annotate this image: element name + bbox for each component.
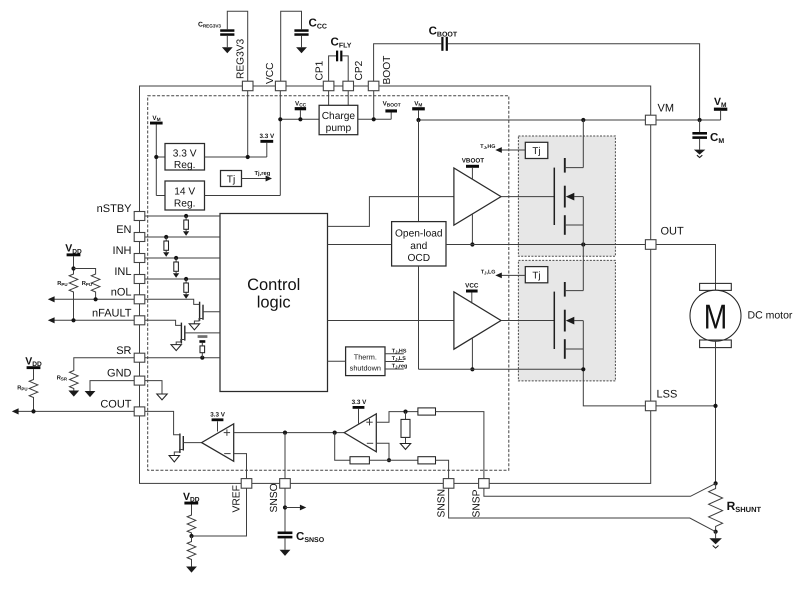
wire nFAULT external with arrow bbox=[48, 317, 134, 323]
svg-text:VDD: VDD bbox=[25, 355, 42, 368]
pull-down on INH bbox=[173, 256, 179, 278]
pin VREF bbox=[232, 479, 252, 513]
wire open-load block bottom to LSS rail bbox=[418, 266, 420, 369]
node SNSO branch bbox=[283, 431, 287, 435]
svg-text:VCC: VCC bbox=[265, 62, 276, 84]
ground below C_REG3V3 bbox=[222, 47, 233, 53]
wire GND external bbox=[90, 381, 134, 391]
svg-text:Open-load: Open-load bbox=[395, 228, 443, 239]
svg-text:CM: CM bbox=[710, 132, 724, 145]
svg-text:CP2: CP2 bbox=[354, 60, 365, 80]
wire U_C2 plus input network bbox=[376, 412, 418, 423]
wire U_C1 plus input line bbox=[234, 432, 345, 434]
wire Tj,reg stub bbox=[385, 364, 407, 370]
resistor (SNSN input) bbox=[389, 457, 436, 464]
wire SR external to R_SR bbox=[74, 358, 134, 369]
resistor R_PU (nOL) bbox=[82, 272, 100, 299]
gray low-side power MOSFET region bbox=[518, 260, 615, 381]
capacitor C_CC bbox=[294, 18, 327, 48]
pin SNSP bbox=[472, 479, 490, 518]
wire charge pump output to VBOOT bbox=[358, 118, 391, 120]
wire CP2 pin to charge pump bbox=[347, 91, 349, 106]
pin nFAULT bbox=[92, 308, 145, 325]
wire VM internal rail bbox=[419, 119, 646, 121]
thermal shutdown block bbox=[346, 347, 385, 376]
wire LS gate bbox=[501, 320, 554, 322]
svg-text:Charge: Charge bbox=[322, 111, 356, 122]
plus input mark U_C2 bbox=[366, 419, 372, 425]
resistor R_PU (COUT) bbox=[17, 378, 38, 411]
pin SR bbox=[116, 345, 145, 362]
svg-text:EN: EN bbox=[116, 224, 131, 236]
power symbol V_CC (charge pump input) bbox=[295, 100, 307, 119]
node VCC cap branch junction bbox=[298, 117, 302, 121]
power symbol V_DD (pull-ups) bbox=[65, 243, 82, 273]
node feedback branch bbox=[333, 431, 337, 435]
minus input mark U_C2 bbox=[367, 442, 373, 444]
svg-text:TJ,reg: TJ,reg bbox=[392, 364, 408, 370]
node 3.3V reg input junction bbox=[154, 155, 158, 159]
wire OUT rail (open-load to OUT pin) bbox=[446, 244, 645, 246]
power symbol 3.3 V (U_C2) bbox=[352, 399, 368, 423]
svg-text:RSR: RSR bbox=[57, 376, 68, 382]
svg-text:SNSO: SNSO bbox=[269, 483, 280, 512]
pin REG3V3 bbox=[236, 38, 253, 90]
wire VM external bbox=[656, 119, 721, 121]
wire Tj,LS stub bbox=[385, 356, 406, 362]
wire 3.3V reg output bbox=[205, 156, 267, 158]
ground below VREF divider bbox=[186, 567, 197, 573]
svg-text:nSTBY: nSTBY bbox=[97, 203, 133, 215]
wire VM vertical to 14V reg input bbox=[156, 195, 165, 197]
wire EN to control logic bbox=[145, 236, 220, 238]
pull-down on nSTBY bbox=[183, 214, 189, 236]
wire OUT external to motor bbox=[656, 245, 716, 282]
svg-text:Reg.: Reg. bbox=[174, 198, 196, 209]
gray high-side power MOSFET region bbox=[518, 136, 615, 256]
power symbol V_DD (VREF divider) bbox=[183, 491, 200, 514]
resistor (SNSP input) bbox=[418, 408, 436, 415]
pin nOL bbox=[111, 287, 145, 304]
gate driver U_HS (triangle) bbox=[454, 168, 501, 225]
pin SNSN bbox=[437, 479, 454, 518]
svg-text:CFLY: CFLY bbox=[331, 37, 352, 50]
pin CP1 bbox=[314, 60, 334, 90]
wire VCC pin down to 14V reg output bbox=[279, 91, 281, 196]
wire nFAULT to transistor gate bbox=[145, 320, 181, 325]
node BOOT junction bbox=[372, 117, 376, 121]
svg-text:TJ,LG: TJ,LG bbox=[481, 270, 496, 276]
ground below C_M bbox=[694, 150, 705, 158]
svg-text:3.3 V: 3.3 V bbox=[352, 399, 368, 406]
IC inner dashed boundary bbox=[148, 96, 509, 471]
svg-text:3.3 V: 3.3 V bbox=[210, 412, 226, 419]
wire open-load block top feed bbox=[418, 120, 420, 222]
svg-text:VM: VM bbox=[658, 103, 675, 115]
svg-text:VM: VM bbox=[714, 96, 727, 109]
wire nSTBY to control logic bbox=[145, 215, 220, 217]
svg-text:INH: INH bbox=[113, 245, 132, 257]
wire REG3V3 pin to C_REG3V3 bbox=[227, 11, 247, 81]
svg-text:BOOT: BOOT bbox=[382, 56, 393, 85]
svg-text:RPU: RPU bbox=[82, 281, 92, 287]
wire nOL external with arrow bbox=[48, 296, 134, 302]
svg-text:RPU: RPU bbox=[17, 386, 27, 392]
pin INH bbox=[113, 245, 145, 263]
pull-down on INL bbox=[183, 277, 189, 299]
node feedback sum bbox=[387, 458, 391, 462]
resistor R_SR bbox=[57, 369, 78, 391]
pin SNSO bbox=[269, 479, 290, 513]
svg-text:VBOOT: VBOOT bbox=[462, 158, 485, 165]
power symbol VCC (driver supply) bbox=[465, 283, 479, 304]
wire nOL to transistor gate bbox=[145, 299, 199, 304]
wire COUT external with arrow bbox=[12, 408, 134, 414]
resistor R_SHUNT bbox=[709, 483, 762, 531]
node VM cap junction bbox=[698, 118, 702, 122]
ground below Q1 bbox=[189, 324, 199, 330]
svg-text:LSS: LSS bbox=[657, 389, 678, 401]
svg-text:INL: INL bbox=[114, 266, 131, 278]
power symbol 3.3 V (internal) bbox=[259, 133, 275, 157]
svg-text:RSHUNT: RSHUNT bbox=[727, 499, 762, 514]
wire VCC to charge pump bbox=[280, 118, 319, 120]
wire kelvin sense SNSN bbox=[449, 488, 716, 532]
wire to right pull-up bbox=[74, 269, 96, 273]
plus input mark U_C1 bbox=[224, 429, 230, 435]
pull-down on EN bbox=[163, 235, 169, 257]
svg-text:Tj: Tj bbox=[227, 174, 236, 185]
capacitor C_SNSO bbox=[278, 531, 325, 550]
node SNSO tap bbox=[283, 505, 287, 509]
ground GND external bbox=[85, 391, 96, 397]
svg-text:pump: pump bbox=[326, 123, 352, 134]
comparator U_C1 (COUT comparator) bbox=[202, 424, 234, 462]
svg-text:logic: logic bbox=[257, 294, 291, 312]
pull-up resistor to VREG3V3 on SR bbox=[198, 335, 208, 360]
control logic block bbox=[220, 214, 328, 392]
node VCC junction at charge pump branch bbox=[278, 117, 282, 121]
resistor divider bottom (VREF) bbox=[187, 536, 196, 567]
svg-text:SR: SR bbox=[116, 345, 131, 357]
svg-text:3.3 V: 3.3 V bbox=[259, 133, 275, 140]
wire SNSO external bbox=[284, 488, 286, 531]
wire U_C1 minus input to VREF bbox=[234, 454, 247, 479]
wire SNSO to plus line bbox=[284, 433, 286, 479]
node OUT rail at driver stem bbox=[470, 242, 474, 246]
transistor Q1 (nOL open-drain) bbox=[194, 302, 220, 324]
DC motor bbox=[690, 282, 793, 348]
wire LSS rail bbox=[419, 369, 646, 406]
ground below Q2 bbox=[171, 345, 181, 351]
capacitor C_BOOT bbox=[429, 26, 458, 51]
svg-text:CCC: CCC bbox=[309, 18, 327, 31]
ground below C_CC bbox=[296, 47, 307, 53]
arrow Tj,HG output bbox=[480, 144, 525, 153]
svg-text:CREG3V3: CREG3V3 bbox=[198, 22, 221, 29]
charge pump box U_CP bbox=[319, 105, 358, 134]
power symbol V_M (internal, left) bbox=[150, 115, 163, 196]
wire BOOT pin to C_BOOT to VM node bbox=[374, 44, 442, 81]
ground below R_SR bbox=[68, 391, 79, 397]
wire feedback from output bbox=[335, 433, 350, 461]
svg-text:Tj: Tj bbox=[532, 270, 540, 281]
svg-text:COUT: COUT bbox=[100, 399, 131, 411]
arrow Tj,reg output bbox=[242, 170, 273, 182]
svg-text:RPU: RPU bbox=[57, 281, 67, 287]
wire 14V reg output bbox=[205, 195, 281, 197]
power MOSFET M_HS bbox=[554, 120, 583, 245]
node VM rail at HS drain bbox=[581, 118, 585, 122]
pin VM bbox=[645, 103, 674, 125]
svg-text:VCC: VCC bbox=[465, 283, 479, 290]
svg-text:14 V: 14 V bbox=[174, 186, 195, 197]
temperature sensor Tj (regulators) bbox=[221, 171, 242, 187]
wire HS gate bbox=[501, 196, 554, 198]
power symbol VBOOT (driver supply) bbox=[462, 158, 485, 180]
resistor divider top (VREF) bbox=[187, 514, 196, 537]
transistor Q2 (nFAULT open-drain) bbox=[176, 323, 220, 345]
wire control logic to high-side driver bbox=[328, 197, 454, 227]
svg-text:DC motor: DC motor bbox=[748, 310, 793, 322]
capacitor C_M bbox=[692, 120, 724, 150]
resistor (divider to ground) bbox=[401, 412, 410, 444]
wire U_C2 minus input network bbox=[376, 443, 389, 460]
wire INH to control logic bbox=[145, 257, 220, 259]
wire CP1-CP2 flying cap loop bbox=[329, 56, 336, 81]
regulator 14 V Reg. bbox=[165, 181, 205, 210]
svg-text:CBOOT: CBOOT bbox=[429, 26, 458, 39]
wire motor to LSS node bbox=[715, 341, 717, 483]
svg-text:OCD: OCD bbox=[407, 253, 430, 264]
pin VCC bbox=[265, 62, 286, 90]
node LSS rail at LS source bbox=[581, 367, 585, 371]
node LSS motor junction bbox=[713, 404, 717, 408]
ground below C_SNSO bbox=[280, 550, 291, 556]
wire VREF external to divider bbox=[192, 488, 247, 536]
wire CP1 pin to charge pump bbox=[328, 91, 330, 106]
power symbol V_M (supply) bbox=[714, 96, 727, 120]
node LSS rail at driver stem bbox=[470, 367, 474, 371]
wire REG3V3 pin down to 3.3V reg output bbox=[247, 91, 249, 157]
svg-text:Control: Control bbox=[247, 276, 300, 294]
svg-text:SNSN: SNSN bbox=[437, 489, 448, 518]
svg-text:Tj,reg: Tj,reg bbox=[255, 170, 271, 177]
svg-text:TJ,HS: TJ,HS bbox=[392, 348, 407, 354]
svg-text:VBOOT: VBOOT bbox=[383, 100, 401, 108]
wire GND internal stub bbox=[145, 381, 162, 394]
temperature sensor Tj (low side) bbox=[525, 267, 548, 283]
svg-text:3.3 V: 3.3 V bbox=[173, 149, 197, 160]
svg-text:VREF: VREF bbox=[232, 485, 243, 512]
svg-text:M: M bbox=[704, 298, 728, 336]
svg-text:and: and bbox=[410, 241, 427, 252]
node R_SHUNT top bbox=[714, 481, 718, 485]
arrow Tj,LG output bbox=[481, 270, 525, 279]
pin COUT bbox=[100, 399, 144, 416]
wire VM vertical to 3.3V reg input bbox=[156, 156, 165, 158]
pin INL bbox=[114, 266, 144, 284]
node VM rail at open-load branch bbox=[416, 118, 420, 122]
power symbol 3.3 V (U_C1) bbox=[210, 412, 226, 432]
svg-text:REG3V3: REG3V3 bbox=[236, 38, 247, 79]
power symbol V_DD (COUT pull-up) bbox=[25, 355, 42, 378]
wire resistor to SNSP bbox=[436, 412, 484, 479]
svg-text:shutdown: shutdown bbox=[350, 364, 381, 373]
svg-text:TJ,HG: TJ,HG bbox=[480, 144, 495, 150]
pin BOOT bbox=[368, 56, 393, 91]
wire SR to control logic bbox=[145, 357, 220, 359]
node OUT rail at HS source bbox=[581, 242, 585, 246]
wire kelvin sense SNSP bbox=[484, 483, 716, 496]
svg-text:VCC: VCC bbox=[295, 100, 307, 108]
pin EN bbox=[116, 224, 145, 242]
svg-text:TJ,LS: TJ,LS bbox=[392, 356, 406, 362]
resistor R_PU (nFAULT) bbox=[57, 272, 78, 320]
IC outer boundary bbox=[140, 86, 651, 483]
ground internal (GND pin) bbox=[157, 394, 167, 400]
power symbol V_M (top of open-load rail) bbox=[412, 101, 425, 121]
pin OUT bbox=[645, 226, 684, 250]
ground below R_SHUNT bbox=[709, 532, 722, 548]
svg-text:CSNSO: CSNSO bbox=[296, 531, 325, 544]
regulator 3.3 V Reg. bbox=[165, 144, 205, 172]
ground below divider resistor bbox=[400, 444, 410, 450]
ground below Q3 bbox=[169, 456, 179, 462]
svg-text:Tj: Tj bbox=[532, 146, 540, 157]
wire control logic to thermal shutdown bbox=[328, 360, 346, 362]
power symbol V_BOOT bbox=[383, 100, 401, 119]
pin GND bbox=[107, 368, 145, 385]
svg-text:CP1: CP1 bbox=[314, 60, 325, 80]
pin LSS bbox=[645, 389, 677, 411]
svg-text:nOL: nOL bbox=[111, 287, 132, 299]
comparator U_C2 (sense amplifier) bbox=[344, 414, 376, 452]
pin nSTBY bbox=[97, 203, 145, 221]
wire control logic to low-side driver bbox=[328, 320, 454, 322]
wire LSS external bbox=[656, 405, 716, 407]
svg-text:nFAULT: nFAULT bbox=[92, 308, 132, 320]
minus input mark U_C1 bbox=[224, 453, 230, 455]
open-load and OCD block bbox=[392, 222, 446, 266]
wire feedback resistor to node bbox=[369, 459, 389, 461]
wire Tj,HS stub bbox=[385, 348, 407, 354]
wire VCC pin to C_CC bbox=[281, 11, 302, 81]
wire BOOT pin down to VBOOT rail bbox=[373, 91, 375, 120]
resistor (feedback) bbox=[350, 457, 369, 464]
node VREF divider bbox=[189, 534, 193, 538]
svg-text:VDD: VDD bbox=[65, 243, 82, 256]
capacitor C_FLY bbox=[331, 37, 352, 62]
svg-text:Reg.: Reg. bbox=[174, 160, 196, 171]
node REG3V3 junction bbox=[246, 155, 250, 159]
temperature sensor Tj (high side) bbox=[525, 142, 548, 158]
wire COUT to comparator transistor gate bbox=[145, 411, 180, 434]
gate driver U_LS (triangle) bbox=[454, 292, 501, 349]
svg-text:GND: GND bbox=[107, 368, 132, 380]
power MOSFET M_LS bbox=[554, 245, 583, 370]
pin CP2 bbox=[343, 60, 365, 90]
node R_SHUNT bottom bbox=[714, 530, 718, 534]
arrow SNSO output tap bbox=[285, 505, 306, 511]
node pull-up split bbox=[71, 266, 75, 270]
wire HS driver bottom to OUT rail bbox=[471, 214, 473, 245]
wire control logic to open-load block (OUT rail) bbox=[328, 244, 392, 246]
node sense divider top bbox=[403, 410, 407, 414]
svg-text:SNSP: SNSP bbox=[472, 489, 483, 517]
svg-text:Therm.: Therm. bbox=[354, 352, 377, 361]
wire INL to control logic bbox=[145, 278, 220, 280]
capacitor C_REG3V3 bbox=[198, 22, 234, 48]
wire resistor to SNSN bbox=[436, 460, 449, 479]
wire LS driver bottom to LSS rail bbox=[471, 338, 473, 369]
svg-text:OUT: OUT bbox=[661, 226, 685, 238]
transistor Q3 (COUT open-drain) bbox=[174, 434, 201, 456]
